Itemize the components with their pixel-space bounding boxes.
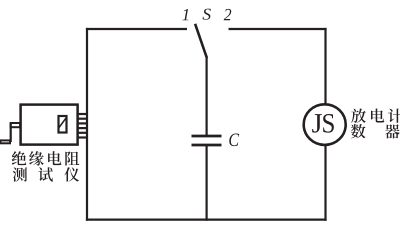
capacitor C top plate	[192, 135, 222, 138]
wire top-right segment	[229, 28, 327, 30]
wire middle branch lower (capacitor to bottom)	[206, 146, 208, 221]
capacitor value label C	[229, 134, 239, 147]
label 数 器 line 2	[351, 124, 400, 138]
label 绝缘电阻 (insulation resistance) line 1	[12, 151, 80, 165]
wire left side	[86, 28, 88, 221]
switch S blade	[195, 24, 207, 58]
switch contact label 1	[182, 9, 188, 20]
insulation tester body	[21, 105, 78, 145]
capacitor C bottom plate	[192, 144, 222, 147]
tester left terminal tab	[11, 123, 21, 127]
wire top-left segment	[86, 28, 187, 30]
tester display window	[59, 116, 67, 133]
label 放电计 (discharge counter) line 1	[351, 108, 400, 122]
label 测试仪 (tester) line 2	[13, 167, 80, 181]
switch label S	[203, 9, 211, 20]
wire bottom	[86, 219, 327, 221]
tester probe tab	[0, 140, 10, 143]
switch contact label 2	[224, 9, 232, 20]
discharge counter label JS	[312, 114, 334, 133]
discharge counter circle	[304, 104, 346, 145]
wire right side lower	[324, 146, 326, 221]
tester display needle	[59, 118, 66, 128]
wire right side upper	[324, 28, 326, 105]
tester lead wire	[10, 123, 12, 142]
wire middle branch upper (switch pole to capacitor)	[206, 57, 208, 136]
tester terminal strip rungs	[78, 114, 87, 138]
